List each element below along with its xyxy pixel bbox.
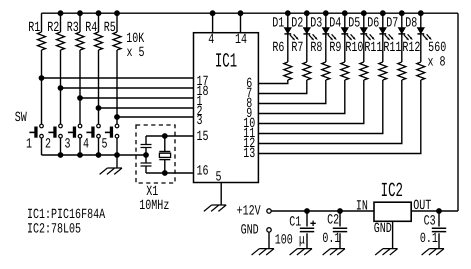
junction R3 top rail [78,11,83,16]
wire R11 to IC1 pin 11 [258,80,382,134]
wire R5 bottom [116,50,118,117]
svg-text:R9: R9 [329,40,341,56]
wire D1 anode [287,13,289,28]
ground symbol (C2) [323,249,345,255]
junction D7 top rail [399,11,404,16]
resistor R4 zigzag [95,32,103,50]
resistor R12 zigzag [417,62,425,80]
svg-text:GND: GND [374,221,392,237]
wire cap column bottom [145,166,147,173]
wire R1 junction to SW1 [41,78,43,124]
wire +5V top rail [42,12,459,14]
wire C1 top [306,211,308,227]
wire R7 to IC1 pin 7 [258,80,306,94]
wire R4 junction to SW4 [98,108,100,124]
ground symbol (IC1 pin5) [204,205,226,211]
resistor R8 zigzag [322,62,330,80]
svg-text:13: 13 [243,146,255,162]
wire C3 bottom [438,233,440,248]
svg-text:+12V: +12V [237,204,261,220]
resistor R5 [116,13,118,32]
crystal block dashed box [136,125,175,183]
junction D5 top rail [361,11,366,16]
wire R11 to IC1 pin 12 [258,80,401,144]
svg-text:15: 15 [197,129,209,145]
svg-text:D5: D5 [348,15,360,31]
svg-text:D1: D1 [272,15,284,31]
wire R9 to IC1 pin 9 [258,80,344,114]
svg-text:SW: SW [15,110,27,126]
crystal X1 top plate [159,151,170,153]
capacitor C1 [300,228,314,231]
wire D4 cathode [344,34,346,62]
wire IC2 GND stem [392,221,394,248]
wire ground stem [116,155,118,168]
junction crystal top node [162,134,167,139]
wire D7 cathode [401,34,403,62]
junction ground rail [115,153,120,158]
wire C1 bottom [306,233,308,248]
svg-text:R11: R11 [364,40,382,56]
svg-text:C1: C1 [289,215,301,231]
wire SW1 to ground rail [41,138,43,155]
wire D6 anode [382,13,384,28]
crystal X1 body [159,153,170,157]
junction node RB2 (R3/SW3/pin wire) [78,96,83,101]
wire D8 anode [420,13,422,28]
wire R3 junction to SW3 [79,98,81,124]
resistor R10 zigzag [360,62,368,80]
wire R2 bottom [60,50,62,88]
svg-text:C2: C2 [327,213,339,229]
wire D6 cathode [382,34,384,62]
crystal X1 bottom plate [159,159,170,161]
wire D8 cathode [420,34,422,62]
svg-text:R5: R5 [104,20,116,36]
resistor R4 [98,13,100,32]
resistor R1 zigzag [38,32,46,50]
junction D3 top rail [323,11,328,16]
wire R12 to IC1 pin 13 [258,80,420,154]
junction node RB4 (R5/SW5/pin wire) [115,115,120,120]
svg-text:R2: R2 [47,20,59,36]
resistor R3 [79,13,81,32]
wire C3 top [438,211,440,227]
switch SW2 [48,124,62,138]
wire D2 anode [306,13,308,28]
junction D1 top rail [285,11,290,16]
wire SW5 to ground rail [116,138,118,155]
junction D2 top rail [304,11,309,16]
wire R1 bottom [41,50,43,78]
svg-text:D4: D4 [329,15,341,31]
wire IC1 pin 4 to rail [212,13,214,33]
LED D8 [417,28,431,41]
resistor R11 zigzag [379,62,387,80]
junction C1 [305,209,310,214]
wire node to IC1 pin 15 [146,135,194,137]
wire D3 anode [325,13,327,28]
svg-text:5: 5 [215,170,221,186]
svg-text:2: 2 [45,137,51,153]
capacitor C1 plus sign [310,221,315,226]
wire D5 anode [363,13,365,28]
junction R5 top rail [115,11,120,16]
svg-text:D2: D2 [291,15,303,31]
svg-text:D3: D3 [310,15,322,31]
svg-text:R6: R6 [272,40,284,56]
svg-text:IN: IN [356,199,368,215]
junction C3 [437,209,442,214]
LED D5 [360,28,374,41]
junction D4 top rail [342,11,347,16]
regulator IC2 78L05 box [374,202,411,221]
wire node to IC1 pin 17 [42,77,194,79]
wire cap column mid [145,148,147,164]
wire switch ground rail [42,154,147,156]
LED D1 [284,28,298,41]
junction node RB0 (R1/SW1/pin wire) [39,76,44,81]
svg-text:R1: R1 [28,20,40,36]
svg-text:R7: R7 [291,40,303,56]
LED D2 [303,28,317,41]
wire D4 anode [344,13,346,28]
svg-text:x 8: x 8 [427,55,445,71]
svg-text:R4: R4 [85,20,97,36]
resistor R5 zigzag [113,32,121,50]
resistor R2 zigzag [57,32,65,50]
wire +5V right rail [457,13,459,211]
LED D4 [341,28,355,41]
wire node to IC1 pin 18 [61,87,194,89]
wire C2 top [339,211,341,227]
svg-text:C3: C3 [424,214,436,230]
svg-text:IC2: IC2 [381,180,403,203]
svg-text:IC1: IC1 [215,51,237,74]
svg-text:5: 5 [101,137,107,153]
svg-text:4: 4 [208,32,214,48]
resistor R2 [60,13,62,32]
wire R6 to IC1 pin 6 [258,80,287,84]
terminal GND [267,228,271,232]
junction cap mid / ground rail [144,153,149,158]
junction pin14 rail [238,11,243,16]
resistor R11 zigzag [398,62,406,80]
wire GND terminal stem [268,232,270,249]
wire crystal bottom [164,160,166,173]
LED D7 [398,28,412,41]
svg-text:x 5: x 5 [126,45,144,61]
svg-text:D7: D7 [386,15,398,31]
wire +12V to IC2 IN [271,210,374,212]
wire node to IC1 pin 2 [99,107,194,109]
wire R3 bottom [79,50,81,98]
switch SW4 [86,124,100,138]
capacitor C3 [432,228,446,231]
junction ground rail [96,153,101,158]
svg-text:10MHz: 10MHz [139,198,169,214]
junction D8 top rail [418,11,423,16]
terminal +12V [267,209,271,213]
wire R8 to IC1 pin 8 [258,80,325,104]
junction ground rail [78,153,83,158]
junction D6 top rail [380,11,385,16]
junction crystal bottom node [162,171,167,176]
wire D3 cathode [325,34,327,62]
wire IC2 OUT to rail [411,210,458,212]
svg-text:0.1: 0.1 [420,231,438,247]
svg-text:4: 4 [83,137,89,153]
load capacitor C upper [141,145,152,148]
svg-text:3: 3 [197,113,203,129]
ground symbol (IC2) [375,249,397,255]
wire node to IC1 pin 3 [117,116,194,118]
load capacitor C lower [141,163,152,166]
LED D6 [379,28,393,41]
svg-text:R11: R11 [383,40,401,56]
junction ground rail [58,153,63,158]
ground symbol (GND terminal) [252,249,274,255]
ground symbol (C1) [290,249,312,255]
resistor R1 [41,13,43,32]
resistor R3 zigzag [76,32,84,50]
wire cap column top [145,136,147,145]
wire IC1 pin 5 to ground [220,183,222,206]
ground symbol (C3) [422,249,444,255]
junction R2 top rail [58,11,63,16]
wire C2 bottom [339,233,341,248]
wire node to IC1 pin 16 [146,172,194,174]
wire D5 cathode [363,34,365,62]
switch SW1 [29,124,43,138]
junction pin4 rail [210,11,215,16]
svg-text:D8: D8 [405,15,417,31]
wire D2 cathode [306,34,308,62]
wire SW3 to ground rail [79,138,81,155]
wire SW2 to ground rail [60,138,62,155]
wire D1 cathode [287,34,289,62]
svg-text:R12: R12 [402,40,420,56]
wire R2 junction to SW2 [60,88,62,124]
wire R4 bottom [98,50,100,108]
svg-text:16: 16 [197,164,209,180]
svg-text:OUT: OUT [413,198,431,214]
svg-text:GND: GND [241,223,259,239]
svg-text:R10: R10 [345,40,363,56]
ground symbol (switch rail) [100,168,122,174]
capacitor C2 [333,228,347,231]
switch SW5 [105,124,119,138]
wire R10 to IC1 pin 10 [258,80,363,124]
junction C2 [338,209,343,214]
svg-text:1: 1 [26,137,32,153]
wire R5 junction to SW5 [116,117,118,124]
LED D3 [322,28,336,41]
svg-text:3: 3 [64,137,70,153]
svg-text:14: 14 [235,32,247,48]
svg-text:100 μ: 100 μ [275,232,305,248]
svg-text:R3: R3 [67,20,79,36]
resistor R9 zigzag [341,62,349,80]
junction node RB3 (R4/SW4/pin wire) [96,106,101,111]
resistor R7 zigzag [303,62,311,80]
switch SW3 [68,124,82,138]
junction R4 top rail [96,11,101,16]
wire IC1 pin 14 to rail [240,13,242,33]
wire D7 anode [401,13,403,28]
resistor R6 zigzag [284,62,292,80]
junction node RB1 (R2/SW2/pin wire) [58,86,63,91]
svg-text:IC2:78L05: IC2:78L05 [27,221,81,237]
wire node to IC1 pin 1 [80,97,194,99]
wire SW4 to ground rail [98,138,100,155]
svg-text:D6: D6 [367,15,379,31]
wire crystal top [164,136,166,152]
op-amp, IC1 PIC16F84A box [194,33,259,183]
svg-text:R8: R8 [310,40,322,56]
svg-text:0.1: 0.1 [322,231,340,247]
